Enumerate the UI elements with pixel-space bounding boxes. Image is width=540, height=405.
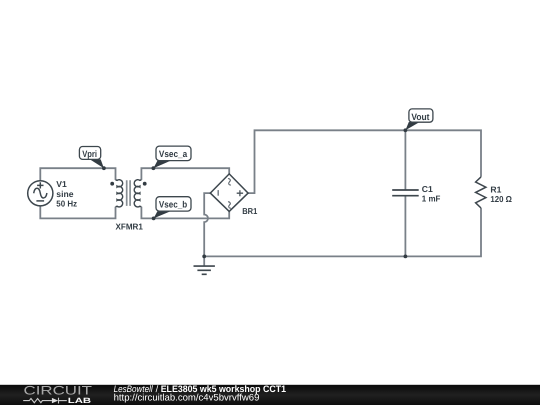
svg-text:1 mF: 1 mF — [422, 194, 441, 204]
svg-text:BR1: BR1 — [242, 206, 257, 216]
svg-text:Vout: Vout — [411, 112, 429, 122]
svg-text:Vsec_b: Vsec_b — [159, 199, 188, 209]
svg-text:http://circuitlab.com/c4v5bvrv: http://circuitlab.com/c4v5bvrvffw69 — [114, 393, 260, 404]
svg-text:R1: R1 — [490, 184, 501, 194]
svg-text:120 Ω: 120 Ω — [490, 194, 512, 204]
svg-text:V1: V1 — [56, 179, 67, 189]
svg-text:Vsec_a: Vsec_a — [159, 149, 188, 159]
svg-text:Vpri: Vpri — [82, 149, 97, 159]
svg-text:XFMR1: XFMR1 — [116, 222, 144, 232]
svg-text:50 Hz: 50 Hz — [56, 199, 77, 209]
svg-text:LAB: LAB — [68, 396, 92, 405]
svg-text:sine: sine — [56, 189, 73, 199]
